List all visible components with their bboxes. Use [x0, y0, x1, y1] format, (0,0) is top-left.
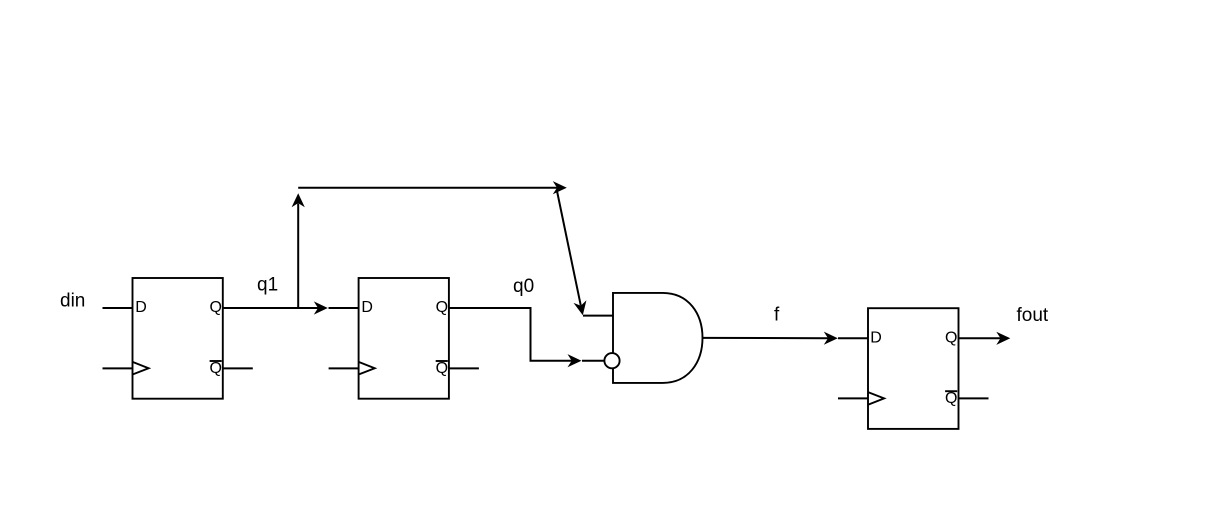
svg-text:Q: Q — [436, 360, 448, 377]
svg-text:din: din — [60, 291, 85, 312]
flip-flop U1 — [133, 278, 223, 399]
wire U2 clock stub — [329, 367, 359, 369]
svg-text:D: D — [361, 299, 373, 316]
wire stub gate upper input — [583, 315, 613, 317]
svg-text:Q: Q — [945, 390, 957, 407]
flip-flop U4 — [868, 308, 959, 429]
wire U4.Qbar stub — [959, 397, 989, 399]
svg-text:Q: Q — [210, 360, 222, 377]
wire feedback branch up from q1 node — [297, 204, 299, 309]
wire f from U3 output to U4.D — [703, 337, 829, 339]
wire feedback diagonal down to gate upper input — [557, 191, 581, 306]
wire U4 clock stub — [838, 397, 868, 399]
svg-text:Q: Q — [210, 299, 222, 316]
wire U1 clock input — [103, 367, 133, 369]
svg-text:q1: q1 — [257, 275, 278, 296]
inversion bubble on U3 lower input — [604, 353, 619, 368]
wire stub into U4.D — [838, 337, 868, 339]
wire feedback top horizontal — [298, 187, 557, 189]
svg-text:f: f — [774, 305, 780, 326]
wire fout from U4.Q with arrow — [959, 337, 1001, 339]
wire din input to U1.D — [103, 307, 133, 309]
wire q0 from U2.Q down to gate lower input — [449, 308, 572, 361]
svg-text:D: D — [870, 330, 882, 347]
svg-text:fout: fout — [1017, 305, 1049, 326]
svg-text:D: D — [135, 299, 147, 316]
wire U1.Qbar stub — [223, 367, 253, 369]
svg-text:Q: Q — [436, 299, 448, 316]
and-gate U3 — [613, 293, 703, 383]
flip-flop U2 — [359, 278, 449, 399]
svg-text:Q: Q — [945, 330, 957, 347]
wire stub into U2.D — [329, 307, 359, 309]
wire U2.Qbar stub — [449, 367, 479, 369]
wire stub into gate bubble — [582, 360, 605, 362]
wire q1 from U1.Q to U2.D — [223, 307, 319, 309]
svg-text:q0: q0 — [513, 276, 534, 297]
